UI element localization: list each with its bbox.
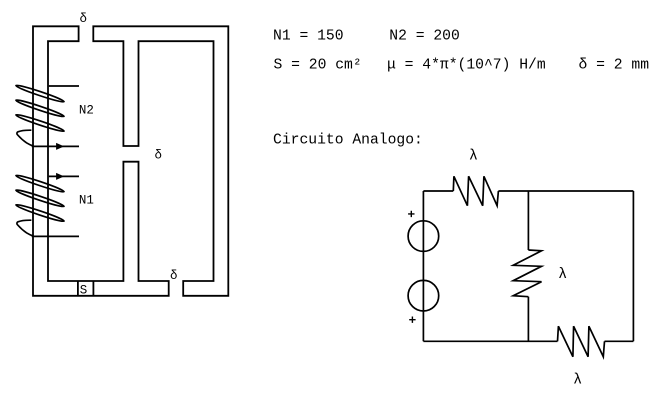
wire: top left segment	[423, 190, 453, 192]
svg-text:S = 20 cm²: S = 20 cm²	[274, 58, 362, 74]
svg-text:λ: λ	[469, 149, 478, 165]
wire: left branch of analog circuit	[422, 191, 424, 341]
wire: middle branch bottom	[527, 297, 529, 342]
cross-section S marker tick right	[92, 281, 94, 296]
winding N1 turn 1	[15, 174, 64, 194]
svg-text:N1 = 150: N1 = 150	[273, 29, 344, 45]
wire: bottom right segment	[605, 340, 634, 342]
svg-text:δ: δ	[155, 148, 163, 162]
resistor (reluctance) lambda 2, middle	[513, 250, 541, 297]
winding N1 top terminal wire	[49, 175, 79, 177]
MMF source F2 (bottom circle)	[408, 280, 439, 311]
svg-text:N2 = 200: N2 = 200	[389, 29, 460, 45]
winding N2 top terminal wire	[49, 85, 79, 87]
current arrow on N1 top terminal	[56, 173, 64, 180]
winding N1 turn 2	[15, 188, 64, 208]
wire: right branch	[632, 191, 634, 341]
winding N2 turn 1	[15, 84, 64, 104]
magnetic core: outer outline, left leg, bottom yoke left part, middle leg lower section	[33, 26, 169, 296]
svg-text:N2: N2	[79, 104, 94, 118]
resistor (reluctance) lambda 1, top	[453, 176, 498, 205]
svg-text:λ: λ	[573, 373, 582, 389]
winding N2 bottom terminal wire	[32, 145, 79, 147]
svg-text:λ: λ	[558, 267, 567, 283]
cross-section S marker tick left	[77, 281, 79, 296]
winding N1 bottom terminal wire	[32, 235, 79, 237]
winding N1 turn 3	[15, 203, 64, 223]
svg-text:μ = 4*π*(10^7) H/m: μ = 4*π*(10^7) H/m	[387, 58, 546, 74]
polarity plus of source F2	[409, 317, 415, 323]
svg-text:δ: δ	[80, 12, 88, 26]
wire: bottom left segment	[423, 340, 557, 342]
svg-text:N1: N1	[79, 194, 94, 208]
winding N2 turn 2	[15, 98, 64, 118]
svg-text:S: S	[80, 284, 88, 298]
winding N2 turn 3	[15, 113, 64, 133]
resistor (reluctance) lambda 3, bottom	[558, 326, 605, 357]
wire: middle branch top	[527, 191, 529, 250]
winding N2 end hook	[17, 130, 33, 146]
svg-text:Circuito Analogo:: Circuito Analogo:	[273, 133, 423, 149]
magnetic core: top-right yoke, right leg, bottom yoke right part, middle leg upper section	[93, 26, 228, 296]
MMF source F1 (top circle)	[408, 221, 439, 252]
winding N1 end hook	[17, 220, 33, 236]
polarity plus of source F1	[408, 211, 414, 217]
current arrow on N2 bottom terminal	[56, 143, 64, 150]
wire: top right segment	[498, 190, 633, 192]
svg-text:δ = 2 mm: δ = 2 mm	[579, 58, 650, 74]
svg-text:δ: δ	[170, 269, 178, 283]
